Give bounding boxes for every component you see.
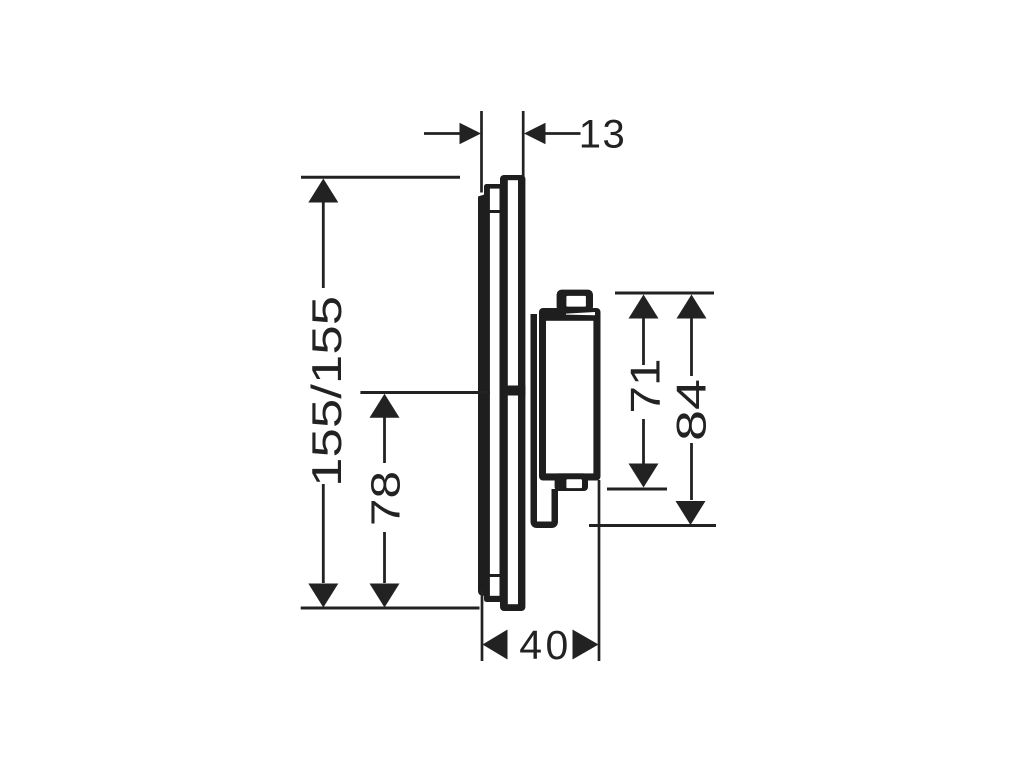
svg-text:13: 13 xyxy=(579,113,627,157)
svg-text:84: 84 xyxy=(668,379,715,441)
svg-text:78: 78 xyxy=(363,471,409,526)
svg-text:71: 71 xyxy=(622,359,669,414)
svg-text:155/155: 155/155 xyxy=(303,296,350,487)
svg-text:40: 40 xyxy=(519,622,572,668)
